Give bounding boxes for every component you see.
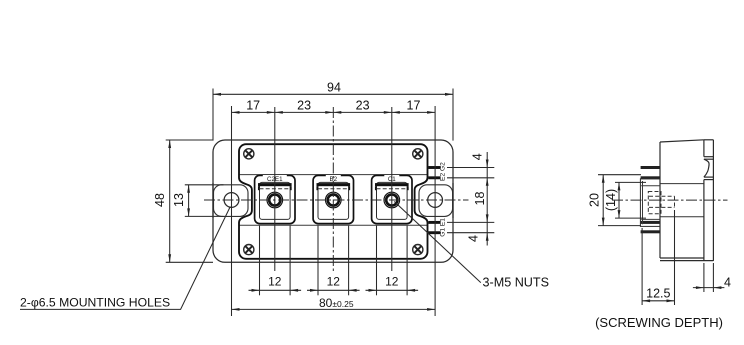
side: centreline — [612, 199, 728, 201]
svg-text:23: 23 — [356, 99, 370, 113]
svg-text:17: 17 — [407, 99, 421, 113]
svg-text:80±0.25: 80±0.25 — [319, 296, 354, 310]
svg-text:48: 48 — [153, 193, 167, 207]
dimensions 12 x3 — [249, 289, 302, 291]
dimension 80±0.25 — [232, 308, 436, 310]
side: extension lines — [598, 174, 641, 176]
terminal C1 — [372, 175, 412, 223]
side: case outline — [660, 140, 704, 142]
side: dimension (14) — [618, 182, 620, 218]
dimension 94 — [213, 93, 453, 95]
svg-text:12.5: 12.5 — [646, 286, 670, 300]
side: terminal block profile — [640, 179, 660, 227]
dimensions 17 23 23 17 — [232, 111, 436, 113]
signal pins (top pair G2/E2, bottom pair E1/G1) — [428, 166, 440, 169]
side: hidden nut and screw hole (dashed) — [648, 192, 661, 214]
extension lines — [212, 89, 214, 141]
svg-text:4: 4 — [724, 275, 731, 289]
svg-text:13: 13 — [172, 193, 186, 207]
terminal C2E1 — [255, 175, 295, 223]
centrelines — [204, 199, 469, 201]
leader: nuts — [394, 202, 481, 283]
svg-text:G1 E1: G1 E1 — [440, 218, 447, 237]
mounting holes 2-phi6.5 — [224, 193, 239, 208]
svg-text:17: 17 — [246, 99, 260, 113]
svg-text:94: 94 — [327, 80, 341, 94]
mounting-ear pockets (notches) — [214, 185, 249, 217]
svg-text:(SCREWING DEPTH): (SCREWING DEPTH) — [595, 315, 723, 330]
side: dimension 4 — [693, 287, 725, 289]
raised centre platform strip — [239, 174, 428, 176]
svg-text:12: 12 — [327, 275, 341, 289]
svg-text:12: 12 — [385, 275, 399, 289]
svg-text:E2 G2: E2 G2 — [440, 162, 447, 181]
right side dimensions 4 / 18 / 4 — [486, 152, 488, 246]
svg-text:3-M5 NUTS: 3-M5 NUTS — [483, 275, 549, 289]
body edge repaint over pockets — [212, 183, 214, 218]
side: ear slot edges — [660, 183, 704, 185]
svg-text:2-φ6.5 MOUNTING HOLES: 2-φ6.5 MOUNTING HOLES — [20, 296, 170, 310]
leader: mounting holes — [20, 207, 230, 310]
side: signal pins — [641, 166, 660, 169]
svg-text:23: 23 — [297, 99, 311, 113]
svg-text:4: 4 — [470, 153, 484, 160]
dimension 48 — [169, 140, 171, 262]
side: baseplate — [704, 139, 714, 141]
side: dimension 20 — [602, 175, 604, 226]
terminal B2 — [313, 175, 353, 223]
svg-text:4: 4 — [466, 235, 480, 242]
svg-text:20: 20 — [587, 193, 601, 207]
svg-text:12: 12 — [268, 275, 282, 289]
dimension 13 — [188, 185, 190, 217]
side: dimension 12.5 — [642, 300, 674, 302]
lid screws (4x phillips) — [244, 149, 254, 159]
svg-text:(14): (14) — [604, 189, 618, 211]
case lid with S-bend detours around mounting-ear pockets — [239, 144, 428, 259]
module body outline (front/top view) — [213, 140, 453, 262]
svg-text:18: 18 — [473, 192, 487, 206]
